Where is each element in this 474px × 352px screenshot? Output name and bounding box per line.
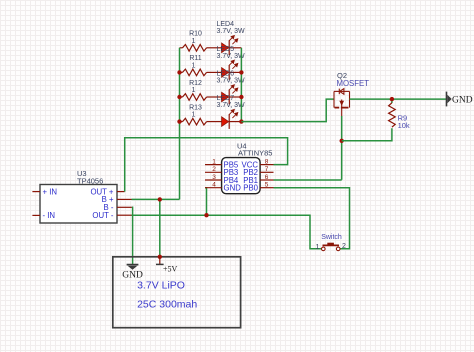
svg-text:+ IN: + IN [43, 187, 58, 196]
wire right LED rail [240, 48, 242, 122]
node B+ junction [158, 197, 162, 201]
node LED rail junction [239, 95, 243, 99]
wire OUT+ to VCC [125, 138, 288, 192]
svg-text:8: 8 [265, 158, 269, 165]
svg-text:R10: R10 [189, 31, 202, 38]
node LED rail junction [239, 119, 243, 123]
wire left LED rail [179, 48, 181, 200]
node OUT- junction [204, 213, 208, 217]
wire R9 top stub [391, 99, 393, 103]
pin -IN [32, 214, 40, 216]
node LED rail junction [177, 119, 181, 123]
svg-text:LED6: LED6 [217, 70, 235, 77]
op-amp U3 TP4056 [40, 185, 117, 224]
wire B+ to LED rail and +5V [132, 198, 180, 200]
LED LED7 [217, 95, 246, 129]
svg-text:2: 2 [342, 243, 346, 250]
ground GND flag right [447, 92, 473, 107]
pin +IN [32, 191, 40, 193]
svg-text:1: 1 [212, 158, 216, 165]
resistor R13 [180, 118, 222, 125]
pin 6 PB1 [260, 179, 273, 181]
wire PB1 to gate [274, 179, 342, 181]
svg-text:R12: R12 [189, 80, 202, 87]
wire Q2 source to GND rail [350, 98, 447, 100]
node gate junction [340, 139, 344, 143]
resistor R12 [180, 94, 222, 101]
LED LED5 [217, 46, 246, 80]
svg-text:3.7V LiPO: 3.7V LiPO [137, 280, 185, 292]
svg-text:GND: GND [452, 95, 473, 105]
svg-text:1: 1 [316, 244, 320, 251]
pin 4 GND [205, 187, 222, 189]
svg-text:25C 300mah: 25C 300mah [137, 299, 197, 311]
pin 8 VCC [260, 164, 273, 166]
svg-text:6: 6 [265, 174, 269, 181]
svg-text:LED5: LED5 [217, 46, 235, 53]
pin OUT- [117, 214, 132, 216]
svg-text:MOSFET: MOSFET [337, 79, 370, 88]
wire LED cathode rail to Q2 [241, 99, 334, 122]
svg-text:4: 4 [212, 182, 216, 189]
svg-text:LED4: LED4 [217, 21, 235, 28]
svg-text:5: 5 [265, 182, 269, 189]
pin 1 PB5 [205, 164, 222, 166]
pin B- [117, 206, 132, 208]
svg-text:10k: 10k [398, 121, 410, 130]
pin 5 PB0 [260, 187, 273, 189]
pin 2 PB3 [205, 171, 222, 173]
node LED rail junction [177, 70, 181, 74]
pin OUT+ [117, 191, 125, 193]
op-amp U4 ATTINY85 [222, 158, 261, 194]
node LED rail junction [239, 70, 243, 74]
node R9 top junction [390, 97, 394, 101]
svg-text:Switch: Switch [321, 234, 342, 241]
svg-text:R13: R13 [189, 104, 202, 111]
wire B- to battery GND [131, 207, 134, 264]
svg-text:R11: R11 [189, 55, 201, 62]
wire U4 GND down [205, 188, 207, 216]
svg-text:3: 3 [212, 174, 216, 181]
svg-text:1: 1 [192, 38, 196, 45]
wire PB0 to switch pin2 [274, 188, 350, 249]
svg-text:+5V: +5V [163, 264, 178, 273]
svg-text:3.7V, 3W: 3.7V, 3W [217, 28, 246, 35]
svg-text:1: 1 [192, 112, 196, 119]
svg-text:PB0: PB0 [243, 184, 258, 193]
pin B+ [117, 198, 132, 200]
battery box 3.7V LiPO [113, 257, 241, 328]
LED LED4 [217, 21, 246, 55]
transistor Q2 MOSFET [334, 89, 350, 116]
resistor R11 [180, 69, 222, 76]
ground GND flag battery [122, 265, 143, 281]
wire gate junction to R9 [342, 128, 392, 141]
svg-text:1: 1 [192, 63, 196, 70]
svg-text:GND: GND [122, 270, 143, 280]
svg-text:OUT -: OUT - [92, 211, 113, 220]
svg-text:1: 1 [192, 87, 196, 94]
svg-text:2: 2 [212, 166, 216, 173]
svg-text:ATTINY85: ATTINY85 [238, 149, 272, 158]
wire OUT- to switch pin1 [132, 215, 322, 249]
resistor R10 [180, 45, 222, 52]
power +5V flag [156, 257, 178, 274]
pin 7 PB2 [260, 171, 273, 173]
svg-text:TP4056: TP4056 [77, 176, 103, 185]
svg-text:GND: GND [224, 184, 242, 193]
svg-text:- IN: - IN [43, 211, 56, 220]
node +5V junction at battery border [158, 255, 162, 259]
wire Q2 gate down [341, 116, 343, 180]
svg-text:7: 7 [265, 166, 269, 173]
pin 3 PB4 [205, 179, 222, 181]
svg-text:LED7: LED7 [217, 95, 235, 102]
switch SW [322, 243, 341, 251]
resistor R9 [389, 103, 396, 127]
node LED rail junction [177, 95, 181, 99]
LED LED6 [217, 70, 246, 104]
